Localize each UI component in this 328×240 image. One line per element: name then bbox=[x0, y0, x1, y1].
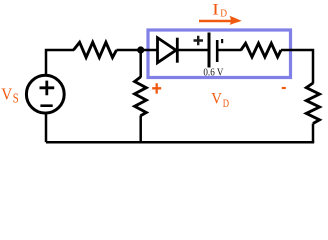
battery plus label bbox=[194, 36, 204, 45]
svg-text:I: I bbox=[212, 2, 219, 19]
node junction (diode branch) bbox=[137, 46, 144, 53]
wire: junction down to R4 bbox=[139, 50, 142, 78]
source plus sign bbox=[40, 81, 55, 96]
wire: R3 to bottom bbox=[312, 124, 315, 143]
battery minus tick bbox=[221, 39, 223, 43]
svg-text:V: V bbox=[211, 91, 222, 108]
wire: R2 to right side bbox=[281, 50, 313, 84]
svg-text:D: D bbox=[223, 96, 230, 110]
wire: R4 to bottom bbox=[139, 116, 142, 143]
wire: top left horizontal bbox=[46, 50, 74, 75]
svg-text:V: V bbox=[1, 84, 13, 103]
source minus sign bbox=[40, 104, 52, 107]
wire: battery to resistor R2 bbox=[217, 49, 241, 52]
current arrow ID bbox=[199, 20, 233, 23]
battery long plate bbox=[208, 33, 211, 68]
ideal diode D (triangle + cathode bar) bbox=[158, 38, 177, 63]
resistor R2 (inside box) bbox=[241, 43, 281, 57]
model box (blue rectangle) bbox=[148, 30, 291, 78]
svg-text:S: S bbox=[13, 91, 19, 106]
svg-text:D: D bbox=[220, 8, 227, 20]
svg-text:0.6 V: 0.6 V bbox=[203, 67, 223, 78]
resistor R1 (top horizontal) bbox=[74, 42, 117, 57]
wire: source bottom bbox=[45, 113, 48, 142]
resistor R4 (middle vertical) bbox=[135, 77, 147, 116]
bottom wire bbox=[46, 141, 314, 144]
resistor R3 (right vertical) bbox=[306, 83, 319, 124]
voltage source VS (circle) bbox=[26, 75, 64, 113]
wire: diode to battery bbox=[177, 49, 208, 52]
wire: resistor to diode bbox=[117, 49, 158, 52]
polarity minus (orange) bbox=[282, 87, 286, 89]
polarity plus (orange) bbox=[152, 83, 161, 93]
battery short plate bbox=[216, 40, 219, 62]
